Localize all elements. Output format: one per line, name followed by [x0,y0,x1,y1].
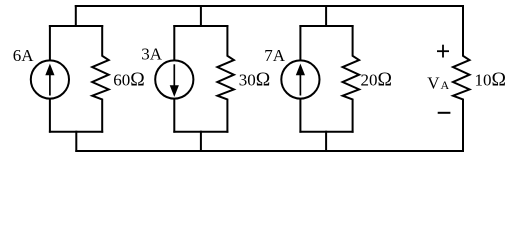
svg-text:30Ω: 30Ω [239,69,271,90]
svg-text:6A: 6A [13,46,35,65]
top wire (rail) [75,5,464,7]
resistor R3 (20 ohm) [343,25,360,133]
wire: box3 top rail [299,25,353,27]
resistor R1 (60 ohm) [92,25,109,133]
svg-text:A: A [441,78,450,92]
svg-text:3A: 3A [141,44,163,63]
wire: box2 bottom rail [173,131,228,133]
wire: stub from top rail to box1 [75,5,77,27]
svg-text:20Ω: 20Ω [361,69,393,90]
svg-text:60Ω: 60Ω [113,69,145,90]
wire: stub from box2 to bottom rail [200,131,202,152]
wire: box2 top rail [173,25,228,27]
bottom wire (rail) [75,150,464,152]
wire: stub from top rail to box2 [200,5,202,27]
svg-text:7A: 7A [264,46,286,65]
minus polarity mark [438,112,451,114]
resistor R2 (30 ohm) [217,25,234,133]
wire: stub from box1 to bottom rail [75,131,77,152]
wire: box3 bottom rail [299,131,353,133]
label VA (node voltage) [427,73,449,92]
wire: stub from top rail to box3 [325,5,327,27]
resistor R4 (10 ohm) with right branch wire [453,5,470,152]
plus polarity mark [437,45,449,58]
current source I3 (7A) [281,25,319,133]
wire: box1 top rail [49,25,103,27]
wire: stub from box3 to bottom rail [325,131,327,152]
current source I2 (3A) [155,25,193,133]
current source I1 (6A) [31,25,69,133]
svg-text:V: V [427,73,440,92]
wire: box1 bottom rail [49,131,103,133]
svg-text:10Ω: 10Ω [475,70,507,91]
